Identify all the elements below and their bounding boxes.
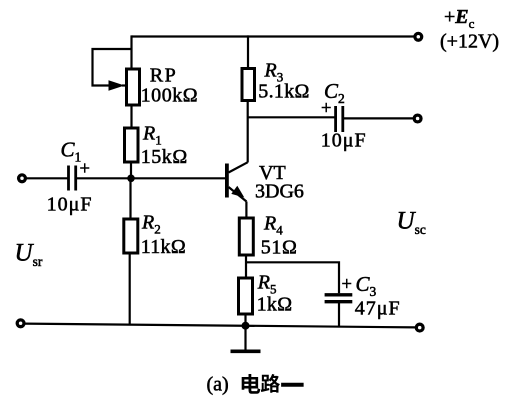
svg-text:10μF: 10μF <box>321 129 367 151</box>
svg-text:100kΩ: 100kΩ <box>141 84 199 106</box>
svg-text:15kΩ: 15kΩ <box>141 146 188 168</box>
resistor R5 <box>239 278 253 314</box>
wire R1 to base node <box>130 162 132 178</box>
wire collector to C2 <box>248 116 335 118</box>
svg-text:10μF: 10μF <box>47 194 93 216</box>
capacitor C3 <box>325 295 353 302</box>
svg-text:+: + <box>321 99 331 119</box>
caption 电 <box>242 374 261 394</box>
svg-text:(+12V): (+12V) <box>440 30 499 52</box>
wire C1 to base <box>76 177 225 179</box>
wire R4 to R5 <box>245 255 247 278</box>
caption 一 <box>281 383 304 387</box>
potentiometer RP <box>127 69 140 105</box>
node emitter-ground junction <box>242 322 250 330</box>
transistor VT collector stroke <box>229 162 248 172</box>
wire RP feedback loop <box>93 49 132 86</box>
wire RP to R1 <box>130 105 132 128</box>
terminal bottom right <box>416 324 423 331</box>
svg-text:1kΩ: 1kΩ <box>257 294 293 316</box>
wire R3 to rail <box>247 35 249 68</box>
resistor R4 <box>239 218 253 255</box>
svg-text:(a): (a) <box>207 374 229 396</box>
transistor VT emitter stroke <box>229 187 247 202</box>
RP wiper arrow <box>109 80 125 90</box>
wire R5 to bottom rail <box>244 314 246 326</box>
wire top supply rail <box>132 35 414 37</box>
wire C2 to output terminal <box>343 117 414 119</box>
terminal +Ec <box>415 33 422 40</box>
svg-text:47μF: 47μF <box>355 298 401 320</box>
wire input to C1 <box>26 177 68 179</box>
terminal output <box>414 115 421 122</box>
wire emitter to R4 <box>245 202 247 219</box>
wire supply to RP <box>130 35 132 69</box>
resistor R1 <box>125 128 139 162</box>
wire C3 to bottom rail <box>338 302 340 327</box>
svg-text:+: + <box>342 275 352 295</box>
wire base node to R2 <box>129 178 131 219</box>
svg-text:3DG6: 3DG6 <box>255 181 304 203</box>
resistor R3 <box>242 69 255 101</box>
svg-text:5.1kΩ: 5.1kΩ <box>258 81 309 103</box>
caption 路 <box>261 374 280 393</box>
transistor VT base bar <box>225 164 229 198</box>
svg-text:51Ω: 51Ω <box>261 236 298 258</box>
terminal bottom left <box>17 320 24 327</box>
svg-text:11kΩ: 11kΩ <box>141 236 186 258</box>
capacitor C2 <box>336 106 343 132</box>
ground <box>244 326 246 350</box>
wire R2 to bottom rail <box>129 253 131 326</box>
terminal input <box>19 175 26 182</box>
capacitor C1 <box>69 166 76 191</box>
svg-text:+: + <box>80 160 90 180</box>
svg-text:RP: RP <box>150 65 177 87</box>
wire emitter branch to C3 <box>246 262 339 293</box>
resistor R2 <box>124 219 138 253</box>
node base junction <box>127 175 135 183</box>
wire collector to R3 <box>247 101 249 163</box>
transistor VT emitter arrow <box>231 186 244 198</box>
wire bottom rail <box>25 324 416 328</box>
